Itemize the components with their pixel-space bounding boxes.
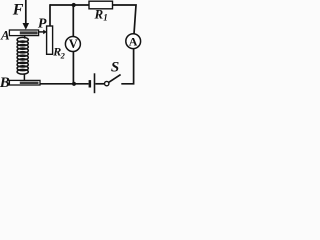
- svg-text:2: 2: [60, 51, 66, 61]
- wire voltmeter top lead: [72, 5, 74, 37]
- fixed bar B (bottom bar): [9, 80, 40, 85]
- wire bottom-right and right edge up to ammeter: [121, 49, 133, 84]
- switch S lever: [109, 75, 121, 83]
- svg-text:F: F: [12, 1, 24, 18]
- spring coil loops: [17, 37, 28, 74]
- svg-text:B: B: [0, 75, 10, 91]
- svg-text:S: S: [111, 60, 119, 76]
- spring coil (stem top): [24, 36, 26, 39]
- svg-text:A: A: [0, 28, 10, 43]
- ammeter A: [126, 34, 141, 49]
- wire top-right and right edge down to ammeter: [113, 5, 137, 34]
- voltmeter V: [65, 37, 80, 52]
- node junction dot bottom: [72, 82, 76, 86]
- switch S pivot: [105, 81, 109, 85]
- svg-text:1: 1: [103, 13, 108, 23]
- spring coil (stem bottom): [23, 73, 25, 80]
- force arrow F: [23, 0, 30, 30]
- wiper arrow P into R2: [39, 30, 47, 35]
- svg-text:A: A: [129, 34, 138, 48]
- resistor R1: [89, 1, 113, 9]
- wire voltmeter bottom lead: [72, 51, 74, 84]
- wire battery to switch: [95, 83, 104, 85]
- resistor R2 vertical box: [47, 26, 53, 54]
- battery positive plate (long thin): [94, 73, 96, 93]
- battery negative plate (short thick): [89, 80, 92, 87]
- wire top-left from R2 feed corner to R1: [50, 4, 89, 6]
- wire R2 feed from top wire: [49, 4, 51, 26]
- svg-text:R: R: [94, 7, 104, 22]
- svg-text:V: V: [69, 37, 78, 51]
- node junction dot top: [72, 3, 76, 7]
- slider bar A (top bar): [9, 30, 38, 36]
- wire bottom from bar B to battery: [40, 83, 89, 85]
